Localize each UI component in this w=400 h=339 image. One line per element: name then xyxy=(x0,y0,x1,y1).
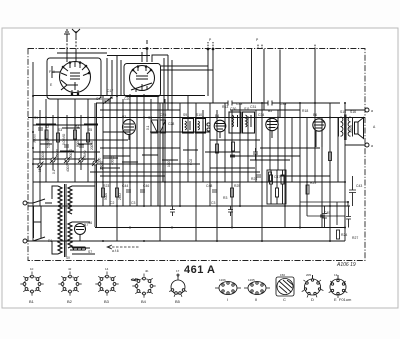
pickup terminals P (dashed) xyxy=(208,42,213,49)
resistor bank box (AGC divider) xyxy=(267,170,286,204)
IF transformer S11 can xyxy=(229,112,241,133)
wire antenna to coil box xyxy=(67,49,76,62)
svg-text:E F01um: E F01um xyxy=(334,297,352,302)
wire pair box B2 to pickup xyxy=(161,66,213,70)
wire bus y=156 xyxy=(103,155,300,157)
grid cap wire B1 xyxy=(52,66,60,78)
svg-text:C48: C48 xyxy=(206,184,212,188)
trimmer C4 xyxy=(50,157,57,164)
view pin ticks V xyxy=(329,281,348,298)
tube B3 (IF amp) xyxy=(123,120,136,141)
capacitor C36 xyxy=(230,155,235,157)
wire bus y=176 xyxy=(100,175,330,177)
svg-text:10000: 10000 xyxy=(69,149,73,158)
svg-text:C31: C31 xyxy=(250,105,256,109)
svg-text:C3: C3 xyxy=(211,201,215,205)
wire osc terminal drop xyxy=(146,40,148,62)
svg-text:0.02: 0.02 xyxy=(189,159,193,165)
bottom view I xyxy=(215,282,241,295)
svg-text:F10: F10 xyxy=(49,70,55,74)
trimmer C6 xyxy=(78,157,85,164)
rectifier tube B7 xyxy=(75,224,86,242)
padder capacitor C28 xyxy=(160,120,166,133)
socket pin ticks B2 xyxy=(58,272,81,296)
svg-text:2MΩ: 2MΩ xyxy=(118,193,122,200)
resistor R5 xyxy=(102,188,105,197)
socket pin ticks B4 xyxy=(132,274,155,298)
svg-text:S8: S8 xyxy=(148,116,152,120)
svg-text:0.5MΩ: 0.5MΩ xyxy=(83,150,87,160)
wire top runs above boxes xyxy=(57,49,315,117)
capacitor C7 xyxy=(126,190,131,192)
series capacitor C30 on bus xyxy=(228,101,232,106)
svg-text:17: 17 xyxy=(176,269,180,273)
svg-text:150: 150 xyxy=(38,166,42,172)
output terminal a1 xyxy=(365,108,369,112)
svg-text:C47: C47 xyxy=(274,175,280,179)
svg-text:B2: B2 xyxy=(67,299,73,304)
antenna A xyxy=(72,29,80,38)
capacitor C32 hang xyxy=(170,206,175,216)
power transformer T1 primary xyxy=(58,186,62,254)
svg-text:150: 150 xyxy=(280,273,285,277)
wire bus y=152 xyxy=(33,151,240,153)
antenna lead-in wires (dashed) xyxy=(67,38,76,49)
trimmer C5 xyxy=(64,157,71,164)
svg-text:B1: B1 xyxy=(29,299,35,304)
svg-text:0.1: 0.1 xyxy=(52,169,56,174)
svg-text:C35: C35 xyxy=(280,102,286,106)
node dot osc xyxy=(146,48,148,50)
svg-text:R18: R18 xyxy=(302,109,308,113)
svg-text:8000: 8000 xyxy=(76,140,80,147)
svg-text:S6: S6 xyxy=(88,221,92,225)
svg-text:C49: C49 xyxy=(324,211,330,215)
svg-text:C: C xyxy=(283,297,286,302)
chassis boundary (dash-dot) xyxy=(28,49,365,261)
mains terminal 2 xyxy=(23,239,27,243)
wire bus y=103 xyxy=(96,102,340,104)
svg-text:461 A: 461 A xyxy=(184,264,215,276)
svg-text:25000: 25000 xyxy=(100,161,104,170)
capacitor C1 xyxy=(38,128,43,130)
wire bus y=132 xyxy=(33,125,210,132)
svg-text:S16: S16 xyxy=(350,110,356,114)
resistor R16 xyxy=(281,175,284,184)
mains voltage selector xyxy=(34,206,42,238)
view pin ticks IV xyxy=(302,275,324,298)
svg-text:40000: 40000 xyxy=(111,156,115,165)
svg-text:B4: B4 xyxy=(215,114,219,118)
tube B5 (AF amp) xyxy=(266,118,278,138)
socket B5 xyxy=(171,274,185,294)
wires in resistor bank xyxy=(271,170,283,204)
svg-text:13: 13 xyxy=(334,273,338,277)
svg-text:C3: C3 xyxy=(131,201,135,205)
bottom view III (shielded can) xyxy=(276,277,294,296)
svg-text:a: a xyxy=(371,109,373,113)
wire bus y=182 xyxy=(33,181,345,183)
bottom view II xyxy=(244,282,270,295)
svg-text:B4: B4 xyxy=(141,299,147,304)
svg-text:S10: S10 xyxy=(196,113,202,117)
IF transformer S12 can xyxy=(243,112,255,133)
resistor R8 xyxy=(269,172,272,181)
svg-text:B5: B5 xyxy=(175,299,181,304)
wire osc thick xyxy=(162,103,164,182)
svg-text:10: 10 xyxy=(30,267,34,271)
svg-text:S1: S1 xyxy=(34,116,38,120)
series capacitor C35 on bus xyxy=(268,101,272,106)
svg-text:C46: C46 xyxy=(143,184,149,188)
svg-text:C30: C30 xyxy=(230,107,236,111)
resistor R19 xyxy=(216,144,219,153)
socket B3 xyxy=(98,275,116,293)
wire y=216 right xyxy=(307,206,345,228)
wire bus y=148 xyxy=(100,147,320,149)
svg-text:R24: R24 xyxy=(341,233,347,237)
svg-text:T: T xyxy=(60,192,62,196)
svg-text:R1: R1 xyxy=(48,239,52,243)
gramophone terminals (dashed) xyxy=(258,44,315,49)
svg-text:a.f.6: a.f.6 xyxy=(112,249,119,253)
svg-text:R25: R25 xyxy=(234,184,240,188)
svg-text:1206: 1206 xyxy=(219,278,226,282)
heater winding lower xyxy=(70,247,86,250)
socket pin ticks B3 xyxy=(95,272,118,296)
output transformer S15 xyxy=(339,115,353,141)
output terminal a2 xyxy=(365,143,369,147)
svg-text:B3: B3 xyxy=(122,115,126,119)
svg-text:4000: 4000 xyxy=(66,165,70,172)
svg-text:5000: 5000 xyxy=(104,193,108,200)
wire bus y=96 xyxy=(33,95,205,97)
svg-text:R3: R3 xyxy=(223,196,227,200)
resistor R14 xyxy=(270,175,273,184)
svg-text:C17: C17 xyxy=(107,89,113,93)
svg-text:S7: S7 xyxy=(88,250,92,254)
wire top feeds to B2 xyxy=(142,52,168,62)
capacitor C2 xyxy=(64,145,69,147)
wires power section xyxy=(52,186,95,254)
svg-text:A106 19: A106 19 xyxy=(336,262,356,268)
svg-text:30000: 30000 xyxy=(33,134,37,143)
variable capacitor C17 xyxy=(103,97,112,104)
svg-text:S3: S3 xyxy=(58,128,62,132)
loudspeaker xyxy=(355,118,364,139)
svg-text:S2: S2 xyxy=(45,125,49,129)
wire bus y=206 xyxy=(28,205,350,207)
svg-text:0.05MΩ: 0.05MΩ xyxy=(62,133,66,145)
tube B1 enclosure box xyxy=(47,58,101,99)
electrolytic capacitor C43 xyxy=(349,176,356,206)
capacitor C47r xyxy=(346,206,351,228)
node dot 348 xyxy=(347,201,349,203)
wire bus y=160 xyxy=(33,159,290,160)
power transformer T1 secondary HT xyxy=(68,186,72,214)
wire bus y=140 xyxy=(33,139,260,141)
svg-text:50000: 50000 xyxy=(41,151,45,160)
wire bus y=172 xyxy=(90,171,260,173)
trimmer C6b xyxy=(92,160,99,167)
svg-text:14: 14 xyxy=(105,267,109,271)
svg-text:R13: R13 xyxy=(222,105,228,109)
wire bus y=241 xyxy=(28,240,345,242)
svg-text:C33: C33 xyxy=(236,102,242,106)
svg-text:II: II xyxy=(255,297,257,302)
mains switch xyxy=(27,199,52,241)
svg-text:C43: C43 xyxy=(356,184,362,188)
svg-text:205: 205 xyxy=(306,273,311,277)
resistor R4 xyxy=(87,133,90,142)
bottom view IV xyxy=(304,275,320,295)
svg-text:C20: C20 xyxy=(124,97,130,101)
node P dots xyxy=(207,48,209,50)
svg-text:42: 42 xyxy=(68,267,72,271)
resistor R3 xyxy=(74,130,77,139)
svg-text:25000: 25000 xyxy=(56,149,60,158)
svg-text:I: I xyxy=(227,297,228,302)
bottom view V xyxy=(330,275,346,295)
padder capacitor C25 xyxy=(151,120,158,133)
tube B2 (EF oscillator) xyxy=(130,66,155,93)
capacitor C34 hang xyxy=(228,206,233,216)
vertical wires right-center group xyxy=(188,96,278,241)
wire bus y=117 xyxy=(28,117,365,119)
wire bus y=164 xyxy=(33,163,200,165)
svg-text:B6: B6 xyxy=(313,113,317,117)
socket B4 xyxy=(131,277,153,295)
svg-text:R23: R23 xyxy=(103,184,109,188)
svg-text:4V: 4V xyxy=(66,256,71,260)
svg-text:R29: R29 xyxy=(310,181,316,185)
svg-text:a: a xyxy=(371,144,373,148)
capacitor C11 xyxy=(320,215,325,217)
wires right of B2 box xyxy=(164,55,172,110)
svg-text:B5: B5 xyxy=(268,109,272,113)
svg-text:0.1: 0.1 xyxy=(146,125,150,130)
wire to terminals xyxy=(345,110,365,145)
svg-text:C34: C34 xyxy=(258,113,264,117)
resistor R21 xyxy=(329,152,332,161)
resistor R6 xyxy=(116,188,119,197)
capacitor C3 xyxy=(79,145,84,147)
svg-text:S11: S11 xyxy=(244,107,250,111)
resistor R1 xyxy=(45,130,48,139)
arrow a.f. (dashed) xyxy=(107,245,140,249)
earth terminal E xyxy=(64,30,70,40)
svg-text:S4: S4 xyxy=(75,125,79,129)
resistor R7 xyxy=(231,188,234,197)
resistor R15 xyxy=(276,188,279,197)
resistor R9 xyxy=(306,185,309,194)
wire bus y=110 xyxy=(100,109,300,111)
capacitor C8 xyxy=(140,190,145,192)
socket B1 xyxy=(23,275,41,293)
svg-text:4b: 4b xyxy=(145,269,149,273)
svg-text:52000: 52000 xyxy=(47,139,51,148)
mains terminal 1 xyxy=(23,201,27,205)
socket pin ticks B1 xyxy=(20,272,43,296)
svg-text:C28: C28 xyxy=(168,122,174,126)
wire step bottom right xyxy=(300,202,348,225)
svg-text:C44: C44 xyxy=(122,184,128,188)
svg-text:C12: C12 xyxy=(96,97,102,101)
svg-text:S5: S5 xyxy=(88,128,92,132)
tube B4 (IF/detector) xyxy=(214,120,226,138)
wire bus y=227 xyxy=(95,227,345,229)
tube B2 enclosure box xyxy=(124,64,161,97)
svg-text:20000: 20000 xyxy=(90,141,94,150)
capacitor C37 xyxy=(253,148,258,160)
wire bus y=168 xyxy=(100,167,255,169)
power transformer T1 heater winding xyxy=(68,222,72,248)
svg-text:S9: S9 xyxy=(183,113,187,117)
svg-text:R27: R27 xyxy=(352,236,358,240)
trimmer C6c xyxy=(37,162,44,169)
power transformer T1 core xyxy=(65,184,67,257)
svg-text:B3: B3 xyxy=(104,299,110,304)
svg-text:B7: B7 xyxy=(84,223,88,227)
resistor R10 xyxy=(337,230,340,239)
tube B6 (output pentode) xyxy=(313,119,325,147)
vertical wires right group xyxy=(285,103,345,241)
vertical wires left group xyxy=(33,62,97,241)
svg-text:D: D xyxy=(311,297,314,302)
capacitor C9 xyxy=(212,190,217,192)
IF transformer S10 can xyxy=(196,119,206,134)
trimmer pair det xyxy=(207,123,210,131)
socket B2 xyxy=(61,275,79,293)
svg-text:C2: C2 xyxy=(110,201,114,205)
svg-text:1000: 1000 xyxy=(167,160,171,167)
IF transformer S9 can xyxy=(183,119,194,134)
resistor R20 xyxy=(232,142,235,151)
tube B1 (ECH4 triode-hexode) xyxy=(60,62,91,95)
svg-text:R26: R26 xyxy=(251,177,257,181)
svg-text:C25: C25 xyxy=(160,113,166,117)
capacitor C10 xyxy=(256,175,261,177)
wire stubs mid-left xyxy=(36,124,198,162)
svg-text:350Ω: 350Ω xyxy=(349,125,353,133)
capacitor C49 xyxy=(322,206,327,228)
svg-text:1205: 1205 xyxy=(248,278,255,282)
socket pin ticks B5 xyxy=(169,291,187,297)
svg-text:S15: S15 xyxy=(340,110,346,114)
resistor R2 xyxy=(57,133,60,142)
vertical wires center group xyxy=(103,94,180,241)
wires between tube boxes xyxy=(107,55,121,96)
